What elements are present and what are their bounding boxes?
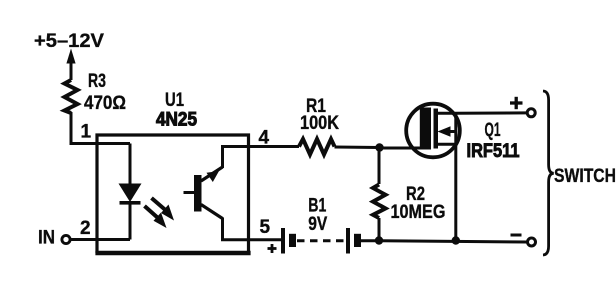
svg-text:2: 2: [80, 218, 91, 239]
minus output label: [511, 234, 522, 237]
wire node to R2: [378, 148, 381, 185]
svg-text:4: 4: [259, 128, 270, 149]
battery cell1 short plate: [289, 234, 296, 247]
pin label 1: [81, 122, 92, 143]
battery 9V label: [308, 214, 327, 235]
battery dashed link: [297, 239, 346, 242]
phototransistor collector diagonal with arrow: [201, 167, 223, 182]
label R2: [406, 184, 425, 205]
svg-text:R3: R3: [88, 71, 106, 92]
svg-text:U1: U1: [165, 90, 184, 111]
svg-text:100K: 100K: [300, 113, 339, 134]
LED triangle: [119, 184, 142, 203]
plus terminal circle: [527, 109, 535, 117]
svg-text:470Ω: 470Ω: [84, 93, 126, 114]
wire R1 to gate node: [335, 146, 380, 150]
phototransistor base bar: [194, 175, 202, 212]
battery plus label: [268, 244, 277, 253]
power arrow up: [66, 49, 75, 81]
power label +5-12V: [34, 31, 104, 52]
pin label 5: [260, 217, 271, 238]
phototransistor emitter diagonal: [201, 205, 223, 219]
mosfet gate plate: [420, 108, 431, 150]
mosfet source vertical wire: [454, 113, 457, 240]
svg-text:IRF511: IRF511: [467, 141, 520, 162]
svg-text:4N25: 4N25: [156, 110, 197, 131]
label R3: [88, 71, 106, 92]
svg-text:10MEG: 10MEG: [391, 202, 446, 223]
label 4N25: [156, 110, 197, 131]
label 470ohm: [84, 93, 126, 114]
pin label 2: [80, 218, 91, 239]
resistor R2: [373, 185, 386, 219]
label IN: [38, 228, 55, 249]
svg-text:+5–12V: +5–12V: [34, 31, 104, 52]
switch brace: [543, 91, 554, 255]
svg-text:1: 1: [81, 122, 92, 143]
node junction gate: [375, 143, 383, 151]
wire R3 to pin1 corner: [71, 112, 130, 144]
node junction bottom R2: [375, 236, 383, 244]
svg-text:9V: 9V: [308, 214, 327, 235]
light arrow lower: [145, 206, 167, 228]
mosfet body arrow: [438, 126, 457, 136]
label IRF511: [467, 141, 520, 162]
svg-text:IN: IN: [38, 228, 55, 249]
svg-text:SWITCH: SWITCH: [554, 166, 616, 187]
node junction source: [452, 236, 460, 244]
minus terminal circle: [528, 238, 536, 246]
wire battery to bottom node: [361, 239, 379, 242]
label 10MEG: [391, 202, 446, 223]
IN terminal circle: [62, 235, 70, 243]
mosfet channel bar: [434, 109, 439, 149]
drain wire to plus terminal: [456, 111, 527, 114]
phototransistor emitter wire to pin5: [223, 218, 282, 240]
optocoupler U1 box: [95, 135, 250, 253]
light arrow upper: [152, 198, 175, 221]
mosfet drain stub: [438, 112, 456, 115]
label Q1: [485, 120, 501, 141]
wire node to gate: [380, 147, 427, 150]
phototransistor base stub: [184, 191, 196, 194]
svg-text:5: 5: [260, 217, 271, 238]
phototransistor collector wire to pin4: [223, 147, 300, 169]
resistor R1: [299, 139, 335, 155]
wire IN to LED cathode: [71, 238, 131, 241]
label SWITCH: [554, 166, 616, 187]
label R1: [306, 96, 326, 117]
mosfet source stub: [438, 143, 456, 146]
LED cathode bar: [120, 201, 141, 205]
label U1: [165, 90, 184, 111]
LED D anode wire: [129, 144, 132, 186]
resistor R3: [65, 80, 78, 113]
battery cell1 long plate: [281, 228, 285, 254]
battery cell2 long plate: [346, 228, 350, 254]
pin label 4: [259, 128, 270, 149]
bottom rail wire: [379, 241, 527, 242]
label 100K: [300, 113, 339, 134]
plus output label: [510, 97, 523, 109]
mosfet Q1 circle: [406, 104, 460, 158]
LED cathode wire to pin2: [129, 203, 132, 240]
battery cell2 short plate: [354, 234, 361, 247]
wire R2 to bottom rail: [378, 218, 381, 241]
svg-text:Q1: Q1: [485, 120, 501, 141]
battery B1 label: [308, 196, 326, 217]
